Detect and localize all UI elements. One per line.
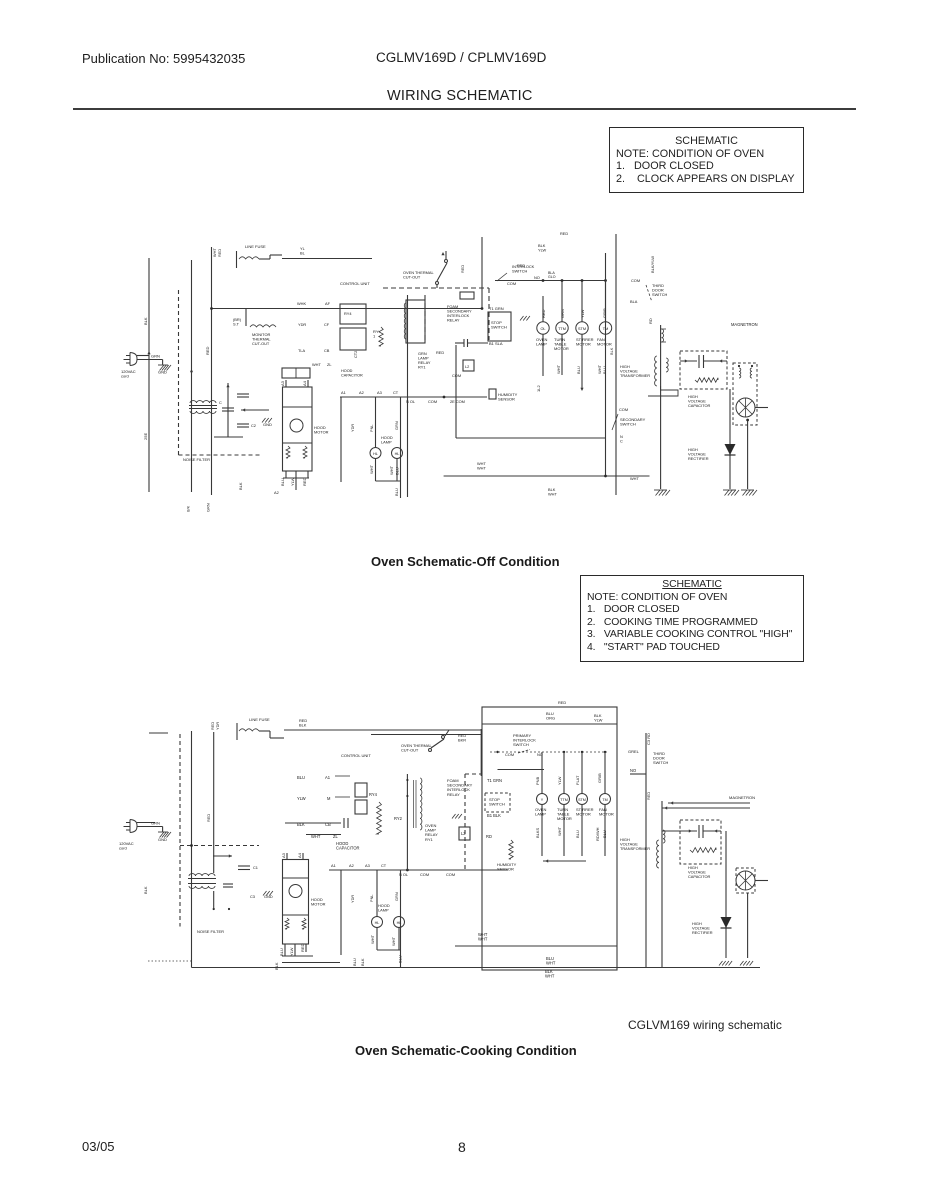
- HVC plate a: [698, 355, 700, 368]
- svg-text:MOTOR: MOTOR: [599, 812, 614, 817]
- svg-text:WHT: WHT: [369, 464, 374, 474]
- wire HVT vert: [660, 325, 662, 489]
- s2 dot ttm col: [563, 751, 565, 753]
- s2 wire HL1 dn: [376, 928, 378, 951]
- control unit left dashed: [424, 295, 426, 340]
- s2 hatch marks: [452, 814, 462, 819]
- label GRN bottom rot: [206, 503, 211, 512]
- svg-text:C: C: [620, 439, 623, 444]
- svg-text:YDR: YDR: [350, 424, 355, 432]
- arrow left gnd: [242, 408, 245, 411]
- label CB t: [325, 822, 331, 827]
- label L2: [465, 364, 469, 369]
- wire dashed noise filter horiz: [179, 454, 263, 456]
- s2 dot a: [213, 908, 215, 910]
- label BLU rot 400b: [394, 488, 399, 496]
- label WHT BLU rot: [597, 364, 602, 374]
- svg-text:NO: NO: [630, 768, 636, 773]
- s2 cap plate x348: [347, 818, 349, 828]
- label HIGH VOLTAGE CAPACITOR 2: [688, 865, 711, 879]
- s2 HV cap dashed box: [680, 820, 721, 864]
- label M t: [327, 796, 331, 801]
- arrow s2 right: [229, 854, 232, 857]
- label PNL rot 2: [369, 894, 374, 902]
- svg-text:BLU: BLU: [394, 488, 399, 496]
- s2 A bus: [329, 869, 508, 871]
- label BLU rot s2: [575, 830, 580, 838]
- svg-text:YDR: YDR: [298, 322, 306, 327]
- s2 cap b plate2: [223, 886, 233, 888]
- fuse out step2: [269, 255, 271, 259]
- HV capacitor dashed box: [680, 351, 727, 389]
- svg-text:CT: CT: [381, 863, 387, 868]
- svg-text:MOTOR: MOTOR: [597, 342, 612, 347]
- label BR ST: [233, 317, 242, 327]
- svg-text:BLK: BLK: [609, 347, 614, 355]
- label CT2: [353, 351, 358, 358]
- wire s2 vert3: [213, 732, 215, 873]
- label WHT rot s2: [557, 826, 562, 836]
- svg-text:COM: COM: [631, 278, 640, 283]
- svg-text:BKR: BKR: [458, 738, 466, 743]
- label GND: [158, 370, 167, 375]
- label BLK rot 616: [609, 347, 614, 355]
- svg-text:RY2: RY2: [394, 816, 403, 821]
- magnetron fil dot a: [738, 365, 740, 367]
- s2 wire vert 400: [400, 870, 402, 968]
- label YDR rot: [350, 424, 355, 432]
- label GND: [263, 422, 272, 427]
- label YDR: [298, 322, 306, 327]
- s2 cap plate x344: [343, 818, 345, 828]
- wire plug gnd drop: [162, 360, 164, 365]
- label FAN MOTOR: [597, 337, 612, 347]
- label STIRRER MOTOR: [576, 337, 594, 347]
- s2 dot 407a: [406, 779, 408, 781]
- svg-text:BLK: BLK: [143, 886, 148, 894]
- label NO: [534, 275, 540, 280]
- cap plate a2: [463, 339, 465, 347]
- arrow plug junction: [147, 351, 150, 354]
- label FAN MOTOR 2: [599, 807, 614, 817]
- fuse F1 s2: [239, 729, 259, 731]
- s2 dot b: [228, 908, 230, 910]
- label BLK WHT bb: [545, 969, 555, 979]
- svg-text:LINE FUSE: LINE FUSE: [249, 717, 270, 722]
- label RED cutout: [460, 265, 465, 273]
- label BLU rot hm2: [279, 948, 284, 956]
- s2 wht bus: [455, 945, 617, 947]
- junction s2 choke: [190, 844, 193, 847]
- label PNB rot: [535, 776, 540, 785]
- s2 dot tm col: [604, 751, 606, 753]
- s2 wire Y dn: [541, 805, 543, 857]
- s2 magnetron dashes: [736, 868, 755, 893]
- svg-text:CONTROL UNIT: CONTROL UNIT: [341, 753, 371, 758]
- hood motor drop: [295, 478, 297, 490]
- label RY2 2: [394, 816, 403, 821]
- HVT primary coil: [662, 329, 664, 342]
- label YDR rot 2: [350, 895, 355, 903]
- label ZL: [327, 362, 332, 367]
- label COM tds: [631, 278, 640, 283]
- s2 sw out line: [498, 769, 545, 771]
- s2 RY4 box b: [355, 800, 367, 814]
- label GND 2: [158, 837, 167, 842]
- svg-text:BLU: BLU: [602, 830, 607, 838]
- s2 hood motor M: [289, 885, 302, 898]
- svg-text:WHT: WHT: [370, 934, 375, 944]
- label 25E rot: [143, 433, 148, 440]
- svg-text:A4: A4: [297, 852, 302, 858]
- HVC plate b: [703, 355, 705, 368]
- label THIRD DOOR SWITCH 2: [653, 751, 669, 765]
- s2 hvr vert: [725, 831, 727, 958]
- label HL2 2: [397, 921, 402, 925]
- wire OL up: [542, 296, 544, 322]
- s2 hvc plate a: [698, 825, 700, 838]
- svg-text:MAGNETRON: MAGNETRON: [731, 322, 758, 327]
- label WHT cu bl: [478, 932, 488, 942]
- note box 2 (cooking condition): [580, 575, 804, 662]
- s2 hvc arrow: [689, 829, 692, 832]
- label HUMIDITY SENSOR: [498, 392, 518, 402]
- ground HVR: [723, 490, 739, 496]
- label GRN LAMP RELAY RY1: [418, 351, 431, 370]
- label A3 2: [365, 863, 370, 868]
- header publication number: [82, 51, 245, 66]
- svg-text:GND: GND: [264, 894, 273, 899]
- label GRB rot mc: [602, 308, 607, 318]
- label WHT RED rot: [212, 248, 217, 257]
- svg-text:PNL: PNL: [369, 894, 374, 902]
- svg-text:WHT: WHT: [478, 937, 488, 942]
- label STIRRER MOTOR 2: [576, 807, 594, 817]
- s2 hood lamp HL1: [372, 917, 383, 928]
- s2 RY2 coil: [420, 778, 422, 830]
- svg-text:CONTROL UNIT: CONTROL UNIT: [340, 281, 370, 286]
- control unit box s2: [482, 707, 617, 970]
- hatch marks relay: [520, 316, 530, 321]
- s2 wire vert 341: [340, 870, 342, 955]
- svg-text:WHT: WHT: [389, 465, 394, 475]
- label CF: [324, 322, 330, 327]
- svg-text:BLU: BLU: [280, 478, 285, 486]
- relay RY2 coil: [404, 303, 406, 339]
- label WHT WHT: [477, 461, 486, 471]
- motor STM circle: [576, 322, 588, 334]
- junction TM: [604, 279, 607, 282]
- svg-text:RY1: RY1: [425, 837, 433, 842]
- motor OL circle: [537, 322, 549, 334]
- hood lamp HL1: [370, 448, 381, 459]
- label AF: [325, 301, 331, 306]
- thermal cutout stub up: [445, 251, 447, 259]
- label C3 s2: [250, 894, 255, 899]
- HVT output step: [648, 386, 678, 396]
- label RED rot mc: [541, 309, 546, 318]
- s2 gnd hatch hvr: [719, 961, 732, 966]
- label BLU rot hm: [280, 478, 285, 486]
- HVT secondary coil: [655, 356, 657, 386]
- s2 hm coil b: [302, 918, 306, 929]
- svg-text:L2: L2: [465, 364, 469, 369]
- label GND s2b: [264, 894, 273, 899]
- label YL BL: [300, 246, 306, 256]
- label A2 2: [349, 863, 354, 868]
- arrow up capC1: [226, 384, 229, 387]
- svg-text:A1: A1: [325, 775, 331, 780]
- control unit bottom: [456, 437, 606, 439]
- label NO s2: [537, 752, 543, 757]
- note box 1 (off condition): [609, 127, 804, 193]
- label WHK: [297, 301, 306, 306]
- svg-text:TTM: TTM: [558, 327, 566, 331]
- label TTM s2: [560, 798, 568, 802]
- svg-text:WHK: WHK: [297, 301, 306, 306]
- label CONTROL UNIT: [340, 281, 370, 286]
- svg-text:RELAY: RELAY: [447, 792, 460, 797]
- svg-text:LINE FUSE: LINE FUSE: [245, 244, 266, 249]
- svg-text:BLK: BLK: [143, 317, 148, 325]
- label GRB rot s2: [597, 773, 602, 783]
- svg-text:WHT: WHT: [546, 961, 556, 966]
- wire motors bus: [495, 280, 606, 282]
- thermal cutout stub dn: [436, 285, 438, 288]
- hood motor inner top: [283, 406, 313, 408]
- svg-text:SWITCH: SWITCH: [513, 742, 529, 747]
- label BLK YLW rot tds: [650, 256, 655, 273]
- svg-text:LAMP: LAMP: [536, 342, 547, 347]
- cap C1 lead: [227, 383, 229, 437]
- svg-text:A3: A3: [281, 852, 286, 858]
- label RED rot hm: [302, 477, 307, 486]
- label TLA: [298, 348, 306, 353]
- label OVEN THERMAL CUTOUT: [403, 270, 434, 280]
- s2 hm inner top: [283, 877, 309, 879]
- label STM s2: [578, 798, 586, 802]
- label RED rot: [205, 346, 210, 355]
- svg-text:GND: GND: [158, 370, 167, 375]
- s2 RY2 core b: [413, 780, 415, 828]
- hood motor stub b2: [295, 471, 297, 478]
- hood motor M: [290, 419, 303, 432]
- third door switch blade: [646, 285, 652, 302]
- label FOAM SECONDARY INTERLOCK RELAY: [447, 304, 472, 323]
- svg-text:OL: OL: [540, 327, 545, 331]
- junction bus left: [210, 307, 213, 310]
- label BLK rot hm3: [274, 962, 279, 970]
- s2 hm stub b1: [284, 944, 286, 956]
- s2 wire TTM up: [563, 752, 565, 794]
- svg-text:T1 GRN: T1 GRN: [489, 306, 504, 311]
- svg-text:BLKS: BLKS: [535, 827, 540, 838]
- wire OL down: [542, 334, 544, 376]
- s2 cutout term1: [429, 749, 432, 752]
- magnetron filament coil a: [739, 368, 741, 378]
- label W3T: [630, 476, 639, 481]
- wire HL2 down: [396, 459, 398, 482]
- svg-text:WHT: WHT: [548, 492, 557, 497]
- wire plug line1: [137, 355, 149, 357]
- label COM2: [452, 373, 461, 378]
- junction WHT 605: [604, 475, 607, 478]
- s2 sensor coil: [509, 840, 513, 859]
- wire TTM down: [561, 334, 563, 375]
- label BLK rot: [143, 317, 148, 325]
- s2 hood motor box: [283, 860, 309, 945]
- label BLU rot hl2: [395, 467, 400, 475]
- s2 bottom dotted: [148, 960, 192, 962]
- svg-text:GREL: GREL: [628, 749, 640, 754]
- s2 hm join: [282, 955, 313, 957]
- s2 dashed vert: [179, 734, 181, 927]
- label YLW rot hm2: [289, 947, 294, 956]
- label 1L2 rot: [536, 385, 541, 392]
- svg-text:YLW: YLW: [594, 718, 603, 723]
- label RED2 rot: [217, 249, 222, 257]
- label ZL t: [333, 834, 339, 839]
- relay RY4 box b: [340, 328, 366, 350]
- s2 bleed resistor: [690, 848, 716, 853]
- svg-text:SENSOR: SENSOR: [498, 397, 515, 402]
- svg-text:CT2: CT2: [353, 351, 358, 358]
- label OVEN LAMP: [536, 337, 547, 347]
- svg-text:COM: COM: [619, 407, 628, 412]
- svg-text:BLK: BLK: [274, 962, 279, 970]
- svg-text:GRN: GRN: [206, 503, 211, 512]
- svg-text:MOTOR: MOTOR: [576, 812, 591, 817]
- label BLK rot hm2: [238, 482, 243, 490]
- svg-text:YDR: YDR: [350, 895, 355, 903]
- label 120VAC cord 2: [119, 841, 134, 851]
- svg-text:COM: COM: [428, 399, 437, 404]
- svg-text:BLU: BLU: [576, 366, 581, 374]
- s2 hvc feed: [662, 830, 680, 832]
- wire plug2 line1: [137, 822, 155, 824]
- svg-text:A1: A1: [331, 863, 336, 868]
- label RED rot s2: [206, 814, 211, 822]
- hood motor inner bot: [283, 442, 313, 444]
- svg-text:MOTOR: MOTOR: [554, 346, 569, 351]
- s2 hood lamp HL2: [394, 917, 405, 928]
- svg-text:STM: STM: [578, 798, 586, 802]
- arrow down line2: [190, 371, 193, 374]
- wire arrow s2: [213, 855, 232, 857]
- label BLK CB: [297, 822, 305, 827]
- s2 wire STM up: [581, 752, 583, 794]
- label COM 2a: [420, 872, 429, 877]
- svg-text:GND: GND: [158, 837, 167, 842]
- lamp L2 box: [463, 360, 474, 371]
- svg-text:YLW: YLW: [289, 947, 294, 956]
- svg-text:A2: A2: [359, 390, 364, 395]
- svg-text:NOISE FILTER: NOISE FILTER: [197, 929, 224, 934]
- svg-text:RED: RED: [541, 309, 546, 318]
- label STOP SWITCH 2: [489, 797, 505, 807]
- svg-text:PNL: PNL: [369, 424, 374, 432]
- s2 choke core b: [188, 883, 216, 885]
- label COM a: [428, 399, 437, 404]
- svg-text:1L2: 1L2: [536, 385, 541, 392]
- svg-text:C: C: [219, 400, 222, 405]
- s2 cutout term2: [442, 736, 445, 739]
- s2 wire Y up: [541, 752, 543, 794]
- svg-text:SWITCH: SWITCH: [489, 802, 505, 807]
- svg-text:BLU: BLU: [602, 366, 607, 374]
- label NOISE FILTER 2: [197, 929, 224, 934]
- svg-text:cord: cord: [119, 846, 127, 851]
- svg-text:BLA: BLA: [630, 299, 638, 304]
- svg-text:MOTOR: MOTOR: [314, 430, 329, 435]
- wire HVR vert: [729, 389, 731, 489]
- hood motor bottom join: [283, 477, 309, 479]
- stop switch box s2: [485, 793, 510, 812]
- junction STM: [581, 279, 584, 282]
- svg-text:LAMP: LAMP: [378, 908, 389, 913]
- svg-text:M: M: [327, 796, 331, 801]
- svg-text:A3: A3: [280, 380, 285, 386]
- svg-text:B1 BLK: B1 BLK: [487, 813, 501, 818]
- svg-text:NO: NO: [534, 275, 540, 280]
- label HIGH VOLTAGE RECTIFIER 2: [692, 921, 713, 935]
- label RDWH rot: [595, 827, 600, 841]
- s2 fil arrow b: [664, 806, 667, 809]
- label HOOD MOTOR 2: [311, 897, 326, 907]
- wire fuse to right: [282, 258, 372, 260]
- wire main bus: [212, 308, 483, 310]
- svg-text:RELAY: RELAY: [447, 318, 460, 323]
- wire STM up: [581, 281, 583, 322]
- wire line vertical RED: [211, 247, 213, 495]
- svg-text:Y: Y: [541, 798, 544, 802]
- s2 bottom bus: [192, 967, 761, 969]
- label PNL rot: [369, 424, 374, 432]
- label NO tds2: [630, 768, 636, 773]
- svg-text:COM: COM: [452, 373, 461, 378]
- s2 wire HL1 up: [376, 870, 378, 917]
- s2 wire TTM dn: [563, 805, 565, 857]
- s2 dot sw out: [496, 751, 498, 753]
- label HL2: [395, 452, 400, 456]
- label HOOD CAPACITOR 2: [336, 841, 360, 851]
- label C2: [251, 423, 256, 428]
- wire TTM up: [561, 281, 563, 322]
- fuse bracket vert: [236, 251, 238, 268]
- hood motor stub b1: [285, 471, 287, 478]
- label BLU ORG: [546, 711, 555, 721]
- label LINE FUSE 2: [249, 717, 270, 722]
- s2 fil wire b: [662, 807, 750, 809]
- svg-text:SWITCH: SWITCH: [512, 269, 528, 274]
- svg-text:PNB: PNB: [535, 776, 540, 785]
- label BLU rot stm: [576, 366, 581, 374]
- cap C3 plate a: [237, 423, 249, 425]
- noise filter choke coil top: [190, 401, 216, 403]
- svg-text:C3: C3: [250, 894, 255, 899]
- label INTERLOCK SWITCH: [512, 264, 535, 274]
- label TM: [603, 327, 608, 331]
- s2 cutout stub: [445, 730, 449, 736]
- s2 no stub: [630, 773, 646, 775]
- svg-text:RED: RED: [436, 350, 444, 355]
- label BLU WHT cb: [546, 956, 556, 966]
- svg-text:CB: CB: [324, 348, 330, 353]
- label T1 GRN 2: [487, 778, 502, 783]
- svg-text:AF: AF: [325, 301, 331, 306]
- svg-text:C2: C2: [251, 423, 256, 428]
- hood motor stub b3: [307, 471, 309, 478]
